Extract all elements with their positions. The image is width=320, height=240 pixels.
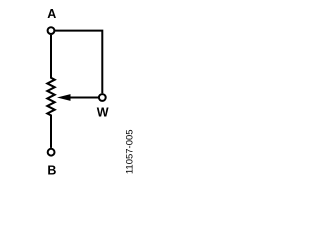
- wiper terminal W: [99, 94, 106, 101]
- svg-text:B: B: [47, 164, 56, 178]
- svg-text:W: W: [97, 106, 109, 120]
- svg-text:11057-005: 11057-005: [125, 129, 136, 174]
- wire A to corner to W: [54, 31, 102, 94]
- wiper arrowhead: [57, 94, 71, 101]
- svg-text:A: A: [47, 7, 56, 21]
- terminal B: [48, 149, 55, 156]
- terminal A: [48, 27, 55, 34]
- wire A to resistor top, resistor R1 body, wire resistor bottom to B: [47, 35, 54, 148]
- wire W to wiper arrow: [69, 97, 99, 99]
